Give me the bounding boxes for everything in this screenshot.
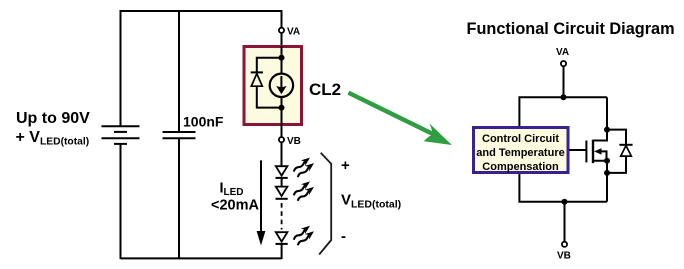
svg-text:Functional Circuit Diagram: Functional Circuit Diagram xyxy=(467,20,675,38)
svg-text:CL2: CL2 xyxy=(309,80,341,99)
svg-text:100nF: 100nF xyxy=(183,114,224,130)
svg-text:ILED: ILED xyxy=(220,181,244,199)
svg-text:<20mA: <20mA xyxy=(211,198,259,214)
svg-text:Control Circuit: Control Circuit xyxy=(482,133,559,145)
svg-text:VLED(total): VLED(total) xyxy=(341,192,401,211)
svg-text:VA: VA xyxy=(556,47,569,58)
svg-text:VA: VA xyxy=(287,27,300,38)
svg-text:-: - xyxy=(341,228,346,245)
svg-text:and Temperature: and Temperature xyxy=(476,147,564,159)
svg-text:+ VLED(total): + VLED(total) xyxy=(16,129,90,148)
svg-text:Compensation: Compensation xyxy=(482,161,559,173)
svg-text:VB: VB xyxy=(557,251,571,262)
svg-text:Up to 90V: Up to 90V xyxy=(16,110,90,127)
svg-text:+: + xyxy=(341,157,350,174)
svg-text:VB: VB xyxy=(287,136,301,147)
